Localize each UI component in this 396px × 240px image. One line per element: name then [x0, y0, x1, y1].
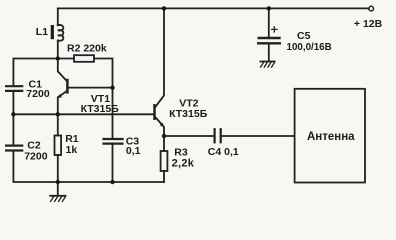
- node C5 rail: [267, 6, 271, 10]
- resistor R3: [161, 136, 168, 182]
- node L1/R2: [56, 56, 60, 60]
- svg-text:C5: C5: [297, 30, 311, 42]
- resistor R2: [58, 55, 113, 87]
- svg-text:R2 220k: R2 220k: [67, 43, 107, 55]
- svg-text:КТ315Б: КТ315Б: [81, 103, 120, 115]
- svg-text:2,2k: 2,2k: [172, 158, 195, 170]
- svg-text:100,0/16В: 100,0/16В: [287, 42, 332, 53]
- wire VT2 emitter to C4: [164, 135, 214, 137]
- svg-text:L1: L1: [36, 26, 48, 38]
- node R1 ground: [56, 180, 60, 184]
- ground symbol left: [50, 182, 65, 201]
- node left rail middle: [11, 112, 15, 116]
- transistor VT1: [58, 59, 113, 115]
- resistor R1: [55, 114, 62, 182]
- ground symbol right: [260, 62, 274, 68]
- node C3 ground: [110, 180, 114, 184]
- svg-text:7200: 7200: [26, 88, 50, 100]
- wire R2 node down to C3: [112, 88, 114, 138]
- capacitor C4: [215, 129, 221, 142]
- svg-text:+ 12В: + 12В: [354, 18, 383, 30]
- wire emitter coupling line: [13, 113, 153, 115]
- svg-text:КТ315Б: КТ315Б: [169, 108, 208, 120]
- wire L1 top lead: [57, 8, 59, 25]
- wire left branch to C1: [13, 59, 57, 86]
- capacitor C3: [104, 139, 123, 144]
- wire middle rail to C2: [12, 114, 14, 144]
- node VT2 emitter: [162, 134, 166, 138]
- wire C1 to middle node: [12, 92, 14, 114]
- wire top rail +12V: [58, 7, 369, 9]
- svg-text:Антенна: Антенна: [307, 131, 355, 143]
- transistor VT2: [155, 8, 165, 136]
- svg-text:C4 0,1: C4 0,1: [208, 146, 239, 158]
- svg-text:7200: 7200: [24, 151, 48, 163]
- wire L1 bottom to R2 node: [57, 41, 59, 59]
- wire C4 to antenna: [222, 135, 295, 137]
- inductor L1: [51, 25, 64, 41]
- wire C2 to ground rail: [13, 152, 57, 182]
- wire C3 to ground rail: [112, 145, 114, 182]
- capacitor C2: [6, 146, 22, 151]
- terminal +12V: [369, 6, 374, 11]
- wire ground rail: [58, 181, 164, 183]
- wire C5 top lead: [268, 8, 270, 36]
- node base VT1: [110, 86, 114, 90]
- C5 plus sign: [272, 27, 277, 32]
- node emitter VT1: [56, 112, 60, 116]
- node VT2 collector rail: [162, 6, 166, 10]
- capacitor C1: [6, 86, 22, 91]
- capacitor C5: [258, 38, 280, 43]
- svg-text:0,1: 0,1: [126, 145, 141, 157]
- wire C5 to ground: [268, 45, 270, 62]
- antenna box: [295, 89, 365, 183]
- svg-text:1k: 1k: [66, 144, 78, 156]
